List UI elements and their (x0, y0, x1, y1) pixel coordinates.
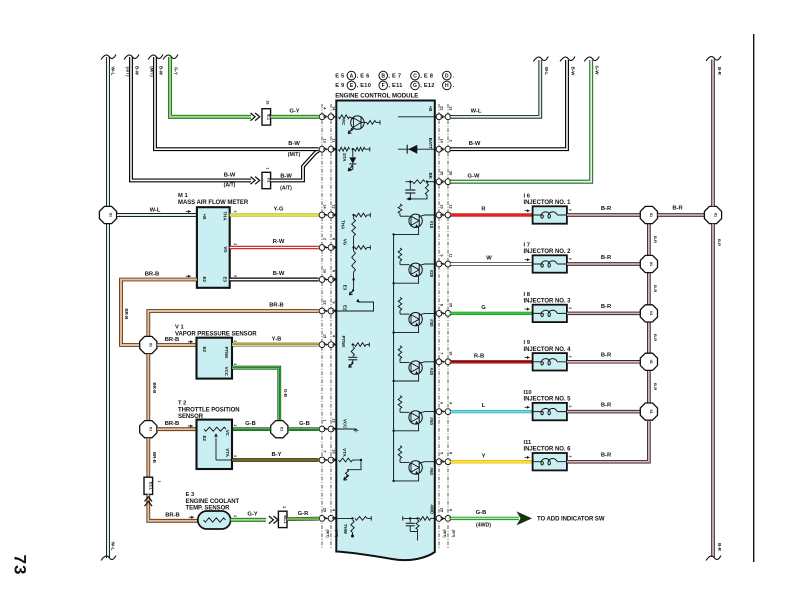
svg-text:22: 22 (322, 300, 326, 304)
L wire ECM to injector 5 (451, 410, 533, 413)
svg-text:11: 11 (448, 253, 452, 257)
svg-text:2: 2 (568, 209, 572, 211)
svg-text:R-W: R-W (273, 239, 285, 245)
G-B wire J4 to ECM VCC (288, 427, 318, 431)
svg-text:THA: THA (222, 211, 227, 221)
E3 engine coolant temp sensor (198, 511, 231, 529)
svg-text:E3: E3 (222, 277, 227, 283)
junction JB2 B-R (640, 255, 657, 272)
svg-text:PTNK: PTNK (224, 347, 229, 360)
svg-text:1: 1 (266, 168, 270, 170)
G-Y wire sensor to EC1 (231, 518, 266, 522)
ECM internal E3 node (352, 278, 354, 280)
svg-text:G-B: G-B (476, 510, 487, 516)
svg-text:Y: Y (482, 453, 486, 459)
svg-text:B-R: B-R (653, 285, 658, 292)
B-W (M/T) drop wire (155, 57, 319, 149)
svg-text:INJECTOR NO. 3: INJECTOR NO. 3 (524, 298, 572, 304)
injector I 7 INJECTOR NO. 2 (533, 255, 567, 272)
svg-text:E3: E3 (343, 285, 348, 291)
B-W right break (560, 57, 575, 62)
junction J1 on W-L rail (99, 206, 116, 223)
svg-text:, E10: , E10 (357, 83, 372, 89)
svg-text:9: 9 (448, 402, 452, 404)
ECM internal VTA circuit (339, 458, 353, 462)
svg-text:I 8: I 8 (524, 292, 531, 298)
svg-text:W-L: W-L (110, 67, 116, 76)
inline connector IE1 (262, 109, 271, 125)
svg-text:E: E (323, 148, 328, 151)
G-R wire EC1 to ECM THW (287, 517, 319, 521)
B-R wire injector 1 to junction (567, 213, 640, 217)
svg-text:B-W: B-W (571, 67, 576, 77)
svg-text:T 2: T 2 (178, 401, 186, 407)
svg-text:II1: II1 (649, 213, 653, 217)
svg-text:(A/T): (A/T) (334, 530, 338, 538)
W-L rail top break (101, 55, 116, 60)
svg-text:C: C (413, 73, 417, 79)
svg-text:BATT: BATT (428, 138, 433, 150)
injector I10 INJECTOR NO. 5 (533, 403, 567, 420)
svg-text:VTA: VTA (342, 448, 347, 457)
G-B wire J4 to T2 VC (232, 427, 270, 431)
ECM internal THA circuit (352, 214, 354, 216)
inline connector II1 (262, 172, 271, 188)
svg-text:F: F (323, 517, 328, 520)
svg-text:STA: STA (342, 153, 347, 162)
inline connector EC1 horizontal (278, 511, 287, 527)
svg-text:2: 2 (233, 340, 237, 342)
B-R rail bottom break (706, 556, 721, 561)
W-L right break (533, 57, 548, 62)
svg-text:II1: II1 (649, 360, 653, 364)
ECM left connector pins (319, 116, 337, 118)
svg-text:B-R: B-R (717, 67, 722, 76)
svg-text:G-B: G-B (299, 421, 310, 427)
svg-text:10: 10 (448, 351, 452, 355)
connector boundary dashed line 1 (321, 104, 323, 548)
svg-text:F: F (323, 310, 328, 313)
svg-text:6: 6 (439, 402, 443, 404)
svg-text:B-R: B-R (653, 236, 658, 243)
junction JB4 B-R (640, 353, 657, 370)
svg-text:B-R: B-R (672, 206, 683, 212)
page rule vertical line (753, 34, 755, 562)
svg-text:(A/T): (A/T) (126, 67, 131, 78)
svg-text:9: 9 (448, 509, 452, 511)
svg-text:TO ADD INDICATOR SW: TO ADD INDICATOR SW (537, 517, 605, 523)
svg-text:5: 5 (233, 275, 237, 277)
svg-text:BR-B: BR-B (165, 337, 180, 343)
svg-text:, E12: , E12 (420, 83, 435, 89)
svg-text:EC1: EC1 (149, 482, 154, 491)
B-R rail top break (706, 56, 721, 61)
svg-text:G-R: G-R (298, 511, 309, 517)
svg-text:F: F (323, 428, 328, 431)
svg-text:F: F (323, 459, 328, 462)
svg-text:B-W: B-W (224, 172, 236, 178)
svg-text:2: 2 (568, 356, 572, 358)
svg-text:E: E (440, 460, 445, 463)
BR-B wire MAF E2 to junction (121, 280, 197, 346)
B-R vertical link 4 (647, 371, 651, 403)
svg-text:II1: II1 (108, 213, 112, 217)
svg-text:13: 13 (322, 139, 326, 143)
svg-text:G-Y: G-Y (174, 67, 179, 75)
svg-text:20: 20 (448, 171, 452, 175)
svg-text:8: 8 (331, 238, 335, 240)
injector I 9 INJECTOR NO. 4 (533, 353, 567, 370)
ECM internal E2 shield link (336, 302, 373, 311)
Y-B wire V1 PTNK to ECM (232, 343, 319, 347)
junction JB3 B-R (640, 305, 657, 322)
svg-text:#60: #60 (429, 468, 434, 476)
svg-text:G-Y: G-Y (247, 511, 257, 517)
R-B wire ECM to injector 4 (451, 360, 533, 363)
svg-text:INJECTOR NO. 4: INJECTOR NO. 4 (524, 347, 572, 353)
svg-text:9: 9 (331, 301, 335, 303)
svg-text:II1: II1 (149, 427, 153, 431)
svg-text:B-R: B-R (601, 304, 612, 310)
junction J2 BR-B (140, 336, 157, 353)
chevrons into EC1 horizontal (269, 516, 278, 524)
svg-text:B-R: B-R (653, 383, 658, 390)
svg-text:26: 26 (266, 101, 270, 105)
svg-text:H: H (440, 517, 445, 520)
svg-text:BR-B: BR-B (165, 513, 180, 519)
connector boundary dashed line 2 (330, 104, 332, 548)
ECM internal driver transistor #30 (398, 297, 402, 310)
svg-text:THROTTLE POSITION: THROTTLE POSITION (178, 408, 239, 414)
ECM internal driver transistor #20 (398, 248, 402, 261)
svg-text:W-L: W-L (150, 207, 161, 213)
G-Y top break (163, 55, 178, 60)
chevrons up into EC1 (145, 497, 153, 506)
svg-text:E: E (332, 309, 337, 312)
svg-text:D: D (445, 73, 449, 79)
svg-text:E: E (332, 427, 337, 430)
svg-text:E: E (440, 213, 445, 216)
svg-text:10: 10 (331, 449, 335, 453)
ECM internal VG circuit (352, 246, 354, 248)
svg-text:B-W: B-W (288, 141, 300, 147)
svg-text:BK: BK (428, 173, 433, 180)
B-R wire injector 5 to junction (567, 410, 640, 414)
svg-text:12: 12 (448, 106, 452, 110)
svg-text:W-L: W-L (110, 542, 116, 551)
svg-text:BR-B: BR-B (165, 421, 180, 427)
svg-text:10: 10 (439, 204, 443, 208)
svg-text:I 6: I 6 (524, 193, 531, 199)
svg-text:7: 7 (322, 450, 326, 452)
svg-text:I11: I11 (524, 440, 533, 446)
svg-text:INJECTOR NO. 5: INJECTOR NO. 5 (524, 397, 572, 403)
svg-text:F: F (323, 343, 328, 346)
svg-text:INJECTOR NO. 2: INJECTOR NO. 2 (524, 249, 572, 255)
svg-text:B-R: B-R (601, 255, 612, 261)
B-Y wire T2 VTA to ECM (232, 458, 319, 462)
B-R vertical link 1 (647, 224, 651, 255)
svg-text:BR-B: BR-B (145, 271, 160, 277)
Y-G wire MAF THA to ECM (230, 213, 319, 217)
B-W wire ECM BATT (451, 60, 567, 149)
W-L rail bottom break (101, 556, 116, 561)
svg-text:MASS AIR FLOW METER: MASS AIR FLOW METER (178, 200, 249, 206)
svg-text:5: 5 (439, 452, 443, 454)
svg-text:25: 25 (439, 508, 443, 512)
ECM internal 4WD circuit (431, 517, 435, 519)
W-L power rail (106, 57, 110, 558)
BR-B wire J3 down to EC1 (146, 438, 150, 477)
svg-text:E 3: E 3 (186, 492, 195, 498)
svg-text:Y-G: Y-G (274, 207, 284, 213)
svg-text:22: 22 (439, 106, 443, 110)
injector I11 INJECTOR NO. 6 (533, 453, 567, 470)
svg-text:+B: +B (428, 106, 433, 112)
W-L wire ECM +B (451, 60, 541, 117)
junction JB6 B-R right (704, 206, 721, 223)
svg-text:FC: FC (341, 119, 346, 126)
svg-text:V 1: V 1 (175, 325, 184, 331)
svg-text:B-W: B-W (469, 141, 481, 147)
R-W wire MAF VG to ECM (230, 246, 319, 249)
ECM internal BK circuit (427, 181, 435, 183)
svg-text:F: F (323, 214, 328, 217)
svg-text:2: 2 (322, 238, 326, 240)
svg-text:3: 3 (233, 455, 237, 457)
BR-B wire to T2 (157, 427, 196, 431)
svg-text:(A/T): (A/T) (224, 183, 236, 189)
svg-text:8: 8 (448, 452, 452, 454)
B-R vertical link 2 (647, 273, 651, 305)
Y wire ECM to injector 6 (451, 460, 533, 463)
svg-text:2: 2 (568, 405, 572, 407)
B-W (M/T) top break (148, 55, 163, 60)
svg-text:E2: E2 (343, 305, 348, 311)
G wire ECM to injector 3 (451, 312, 533, 315)
G-B wire to add indicator switch (451, 517, 519, 520)
svg-text:II1: II1 (280, 427, 284, 431)
svg-text:(M/T): (M/T) (150, 66, 155, 77)
ECM internal FC circuit (339, 115, 350, 119)
svg-text:16: 16 (331, 418, 335, 422)
B-R vertical link 3 (647, 322, 651, 353)
svg-text:1: 1 (157, 481, 161, 483)
connector boundary dashed line 4 (447, 104, 449, 548)
G-Y wire to ECM (271, 115, 319, 119)
svg-text:ENGINE CONTROL MODULE: ENGINE CONTROL MODULE (335, 92, 418, 99)
svg-text:VCC: VCC (342, 419, 347, 429)
svg-text:2: 2 (568, 258, 572, 260)
M1 mass air flow meter box (197, 207, 230, 288)
svg-text:, E 6: , E 6 (357, 73, 370, 79)
svg-text:+B: +B (202, 214, 207, 220)
svg-text:B-R: B-R (601, 206, 612, 212)
injector I 8 INJECTOR NO. 3 (533, 305, 567, 322)
B-R wire J row1 to J right (658, 213, 705, 217)
ECM internal BATT diode (398, 148, 435, 150)
G-W wire ECM BK (451, 60, 592, 182)
svg-text:B-W: B-W (273, 271, 285, 277)
svg-text:F: F (323, 278, 328, 281)
svg-text:A: A (350, 73, 354, 79)
ECM internal VCC stub (336, 428, 356, 430)
V1 vapor pressure sensor box (197, 338, 233, 379)
R wire ECM to injector 1 (451, 213, 533, 216)
svg-text:H: H (440, 148, 445, 151)
svg-text:B-W: B-W (280, 174, 292, 180)
svg-text:E2: E2 (202, 277, 207, 283)
chevrons into connector IH1 (251, 177, 260, 185)
svg-text:F: F (323, 246, 328, 249)
B-W (A/T) wire to ECM (271, 150, 319, 180)
svg-text:E 9: E 9 (335, 83, 344, 89)
svg-text:1: 1 (322, 419, 326, 421)
ECM right connector pins (435, 116, 451, 118)
T2 throttle position sensor box (197, 420, 233, 469)
B-R rail upper (711, 60, 715, 207)
junction J4 G-B (271, 421, 288, 438)
svg-text:3: 3 (233, 363, 237, 365)
svg-text:B-R: B-R (601, 402, 612, 408)
connector boundary dashed line 3 (438, 104, 440, 548)
BR-B wire EC1 to coolant sensor (148, 494, 198, 520)
BR-B wire to V1 (157, 343, 196, 347)
ECM internal THW circuit (336, 517, 352, 519)
svg-text:B-R: B-R (717, 543, 722, 552)
svg-text:G: G (481, 305, 486, 311)
svg-text:16: 16 (322, 269, 326, 273)
svg-text:H: H (440, 115, 445, 118)
svg-text:F: F (440, 263, 445, 266)
svg-text:VTA: VTA (225, 448, 230, 457)
svg-text:THA: THA (341, 220, 346, 230)
G-B wire V1 VCC down (232, 368, 279, 421)
svg-text:II1: II1 (649, 409, 653, 413)
svg-text:E2: E2 (202, 347, 207, 353)
svg-text:G-Y: G-Y (289, 108, 299, 114)
injector I 6 INJECTOR NO. 1 (533, 206, 567, 223)
svg-text:B-Y: B-Y (272, 452, 282, 458)
ECM internal driver transistor #10 (398, 204, 402, 214)
B-W (A/T) drop wire (131, 57, 251, 180)
svg-text:2: 2 (233, 515, 237, 517)
svg-text:B: B (381, 73, 385, 79)
G-Y drop wire (170, 57, 251, 117)
svg-text:2: 2 (233, 243, 237, 245)
B-R rail lower (711, 224, 715, 557)
svg-text:G-B: G-B (283, 389, 288, 397)
svg-text:II1: II1 (649, 311, 653, 315)
svg-text:G-W: G-W (595, 65, 600, 75)
svg-text:, E 7: , E 7 (388, 73, 401, 79)
svg-text:2: 2 (282, 506, 286, 508)
svg-text:R-B: R-B (474, 353, 484, 359)
svg-text:II1: II1 (649, 262, 653, 266)
ECM internal driver transistor #60 (398, 446, 402, 459)
svg-text:8: 8 (331, 270, 335, 272)
B-R wire injector 6 up to J row5 (567, 421, 649, 461)
svg-text:PTNK: PTNK (341, 336, 346, 349)
svg-text:35: 35 (439, 171, 443, 175)
svg-text:, E11: , E11 (388, 83, 402, 89)
chevrons into connector IE1 (251, 113, 260, 121)
W-L wire to MAF (117, 213, 197, 217)
svg-text:(A/T): (A/T) (451, 530, 455, 538)
svg-text:F: F (440, 410, 445, 413)
svg-text:ENGINE COOLANT: ENGINE COOLANT (186, 499, 240, 505)
junction J3 BR-B (140, 421, 157, 438)
svg-text:9: 9 (439, 254, 443, 256)
ECM internal driver bus (393, 234, 395, 481)
svg-text:I 7: I 7 (524, 242, 530, 248)
svg-text:E 5: E 5 (335, 73, 344, 79)
svg-text:THW: THW (343, 524, 348, 535)
svg-text:3: 3 (233, 210, 237, 212)
svg-text:G-W: G-W (468, 173, 480, 179)
svg-text:I 9: I 9 (524, 340, 531, 346)
svg-text:II1: II1 (149, 343, 153, 347)
svg-text:W-L: W-L (544, 67, 549, 76)
svg-text:12: 12 (331, 204, 335, 208)
svg-text:2: 2 (233, 424, 237, 426)
svg-text:#40: #40 (429, 368, 434, 376)
junction JB5 B-R (640, 403, 657, 420)
svg-text:F: F (440, 360, 445, 363)
BR-B wire J2 to J3 (146, 354, 150, 421)
T2 potentiometer (204, 427, 226, 431)
svg-text:VCC: VCC (224, 367, 229, 377)
svg-text:F: F (382, 83, 385, 89)
svg-text:I10: I10 (524, 390, 532, 396)
svg-text:2: 2 (568, 307, 572, 309)
svg-text:(A/T): (A/T) (280, 185, 292, 191)
svg-text:15: 15 (322, 334, 326, 338)
B-R wire injector 2 to junction (567, 262, 640, 266)
svg-text:L: L (482, 403, 486, 409)
svg-text:H: H (440, 180, 445, 183)
svg-text:7: 7 (439, 352, 443, 354)
svg-text:B-W: B-W (135, 66, 140, 76)
svg-text:VG: VG (223, 246, 228, 253)
inline connector EC1 vertical (144, 477, 153, 494)
ECM engine control module body (336, 101, 435, 561)
svg-text:B-W: B-W (159, 66, 164, 76)
svg-text:11: 11 (331, 139, 335, 143)
W wire ECM to injector 2 (451, 262, 533, 265)
G-W right break (584, 57, 599, 62)
svg-text:H: H (445, 83, 449, 89)
svg-text:BR-B: BR-B (152, 383, 157, 394)
ECM internal driver transistor #50 (398, 396, 402, 409)
B-W (A/T) top break (124, 55, 139, 60)
svg-text:(M/T): (M/T) (288, 152, 301, 158)
svg-text:(4WD): (4WD) (476, 523, 491, 529)
B-R wire injector 4 to junction (567, 360, 640, 364)
ECM internal PTNK circuit (352, 343, 354, 345)
svg-text:B-R: B-R (601, 353, 612, 359)
ECM internal +B stub (398, 116, 435, 118)
junction JB1 B-R (640, 206, 657, 223)
svg-text:BR-B: BR-B (152, 452, 157, 463)
svg-text:VC: VC (225, 430, 230, 437)
svg-text:W: W (486, 256, 492, 262)
svg-text:(M/T): (M/T) (442, 530, 446, 538)
svg-text:35: 35 (448, 303, 452, 307)
svg-text:INJECTOR NO. 1: INJECTOR NO. 1 (524, 200, 572, 206)
svg-text:12: 12 (448, 204, 452, 208)
svg-text:B-R: B-R (601, 453, 612, 459)
